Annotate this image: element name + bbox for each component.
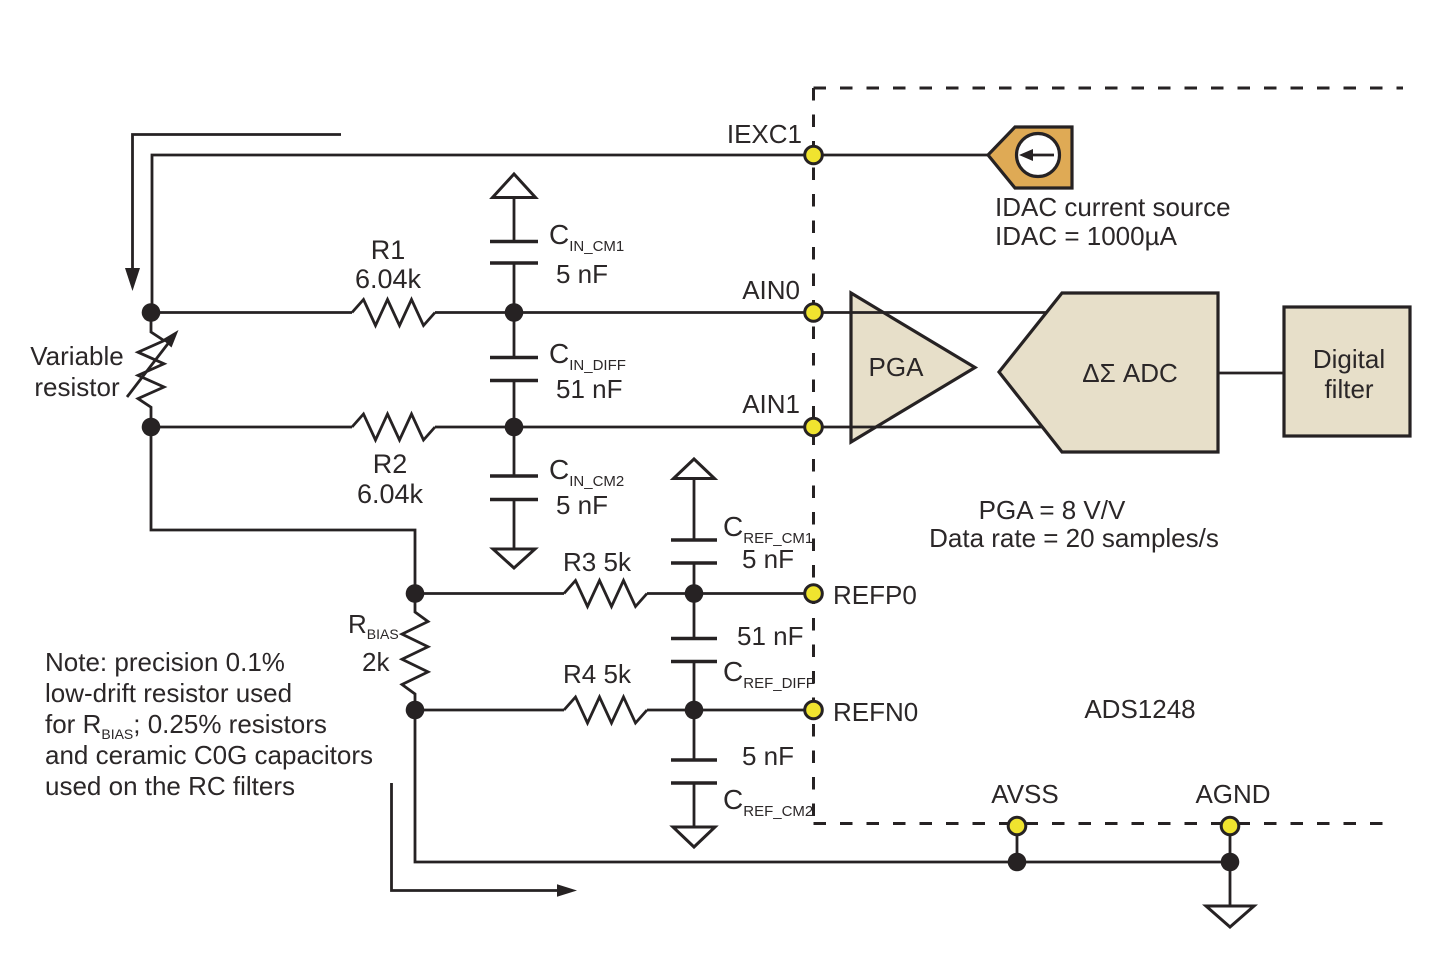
svg-text:AGND: AGND [1195, 779, 1270, 809]
capacitor C_IN_CM1 [493, 174, 536, 198]
pin IEXC1 [805, 146, 823, 164]
svg-text:CIN_CM1: CIN_CM1 [549, 219, 624, 255]
variable resistor RV1 [138, 313, 164, 428]
svg-text:CREF_DIFF: CREF_DIFF [723, 656, 815, 692]
svg-text:Data rate = 20 samples/s: Data rate = 20 samples/s [929, 523, 1219, 553]
svg-text:and ceramic C0G capacitors: and ceramic C0G capacitors [45, 740, 373, 770]
junction node AIN0 / C_IN [505, 303, 524, 322]
resistor RBIAS [402, 594, 428, 710]
svg-text:RBIAS: RBIAS [348, 609, 399, 642]
resistor R1 [352, 300, 435, 326]
junction node RBIAS bottom [406, 701, 425, 720]
junction node on AIN1 at variable resistor [142, 418, 161, 437]
svg-text:6.04k: 6.04k [355, 264, 422, 294]
svg-text:CREF_CM2: CREF_CM2 [723, 784, 813, 820]
svg-text:CIN_CM2: CIN_CM2 [549, 454, 624, 490]
svg-text:6.04k: 6.04k [357, 479, 424, 509]
IDAC current source symbol [988, 127, 1072, 188]
svg-text:resistor: resistor [34, 372, 120, 402]
wire: bottom current-direction arrow [392, 783, 558, 891]
capacitor C_REF_DIFF [693, 594, 696, 638]
junction node AVSS rail [1008, 853, 1027, 872]
junction node RBIAS top [406, 584, 425, 603]
svg-text:5 nF: 5 nF [556, 490, 608, 520]
svg-text:R4 5k: R4 5k [563, 659, 632, 689]
wire: ADC to digital filter [1218, 372, 1284, 375]
resistor R2 [352, 414, 435, 440]
capacitor C_REF_CM2 [693, 710, 696, 759]
junction node REFN0 / C_REF [685, 701, 704, 720]
delta-sigma ADC U2 body [999, 293, 1218, 452]
svg-text:ΔΣ ADC: ΔΣ ADC [1082, 358, 1178, 388]
junction node AGND rail [1221, 853, 1240, 872]
pin AIN0 [805, 304, 823, 322]
PGA U1 body [851, 293, 975, 442]
svg-text:for RBIAS; 0.25% resistors: for RBIAS; 0.25% resistors [45, 709, 327, 742]
capacitor C_REF_CM1 [674, 459, 715, 479]
pin AIN1 [805, 418, 823, 436]
svg-text:CIN_DIFF: CIN_DIFF [549, 338, 626, 374]
svg-text:51 nF: 51 nF [737, 621, 804, 651]
svg-text:5 nF: 5 nF [742, 741, 794, 771]
svg-text:used on the RC filters: used on the RC filters [45, 771, 295, 801]
wire: AIN0 net [152, 311, 1046, 314]
svg-text:Digital: Digital [1313, 344, 1385, 374]
svg-text:CREF_CM1: CREF_CM1 [723, 511, 813, 547]
svg-text:AIN1: AIN1 [742, 389, 800, 419]
junction node on AIN0 at variable resistor [142, 303, 161, 322]
pin REFN0 [805, 701, 823, 719]
pin AGND [1221, 817, 1239, 835]
wire: AGND stub [1229, 826, 1232, 862]
junction node REFP0 / C_REF [685, 584, 704, 603]
wire: REFN0 net [415, 709, 813, 712]
wire: from AIN1 node down to RBIAS node [151, 427, 415, 594]
svg-text:REFN0: REFN0 [833, 697, 918, 727]
capacitor C_IN_DIFF [513, 313, 516, 357]
svg-text:PGA: PGA [869, 352, 925, 382]
digital filter U3 body [1284, 307, 1410, 436]
svg-text:IDAC current source: IDAC current source [995, 192, 1231, 222]
junction node AIN1 / C_IN [505, 418, 524, 437]
svg-text:51 nF: 51 nF [556, 374, 623, 404]
svg-text:R2: R2 [373, 449, 408, 479]
svg-text:low-drift resistor used: low-drift resistor used [45, 678, 292, 708]
wire: ground rail at bottom [415, 710, 1230, 862]
wire: REFP0 net [415, 592, 813, 595]
wire: IEXC1 net from left column to IDAC [152, 155, 988, 313]
svg-text:AVSS: AVSS [991, 779, 1058, 809]
dashed boundary of ADS1248 [814, 88, 1404, 824]
wire: AIN1 net [151, 426, 1042, 429]
svg-text:Variable: Variable [30, 341, 123, 371]
svg-text:IEXC1: IEXC1 [727, 119, 802, 149]
svg-text:AIN0: AIN0 [742, 275, 800, 305]
svg-text:5 nF: 5 nF [742, 544, 794, 574]
svg-text:ADS1248: ADS1248 [1084, 694, 1195, 724]
wire: AVSS stub [1016, 826, 1019, 862]
svg-text:R3 5k: R3 5k [563, 547, 632, 577]
svg-text:filter: filter [1324, 374, 1373, 404]
resistor R3 [564, 581, 647, 607]
svg-text:REFP0: REFP0 [833, 580, 917, 610]
capacitor C_IN_CM2 [513, 427, 516, 475]
ground symbol under AGND [1229, 862, 1232, 905]
resistor R4 [564, 697, 647, 723]
svg-text:IDAC = 1000µA: IDAC = 1000µA [995, 221, 1178, 251]
svg-text:5 nF: 5 nF [556, 259, 608, 289]
svg-text:R1: R1 [371, 235, 406, 265]
svg-text:PGA = 8 V/V: PGA = 8 V/V [979, 495, 1126, 525]
svg-text:2k: 2k [362, 647, 390, 677]
svg-text:Note: precision 0.1%: Note: precision 0.1% [45, 647, 285, 677]
pin AVSS [1008, 817, 1026, 835]
pin REFP0 [805, 585, 823, 603]
wire: current-direction arrow top left [133, 135, 342, 271]
